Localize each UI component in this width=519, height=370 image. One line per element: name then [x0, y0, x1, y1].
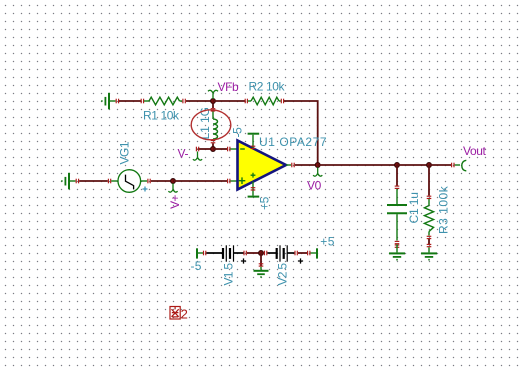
ground GND1 (top-left, facing left): [101, 93, 115, 110]
resistor R3: [424, 199, 433, 236]
resistor R2: [248, 97, 281, 105]
op-amp output lead: [286, 164, 291, 166]
pin ticks op-amp non-inverting input: [228, 179, 230, 184]
pin ticks R3 bottom: [427, 236, 432, 238]
output terminal Vout: [455, 160, 467, 171]
svg-text:2: 2: [181, 306, 188, 321]
svg-text:V0: V0: [307, 179, 322, 193]
op-amp minus input mark: [240, 148, 245, 150]
jumper terminal -5: [197, 248, 203, 258]
node at inverting junction: [211, 147, 216, 152]
pin ticks V- stub end: [196, 147, 198, 152]
highlight ellipse around L1: [191, 110, 231, 140]
pin ticks GND1: [116, 99, 118, 104]
svg-text:R2 10k: R2 10k: [249, 80, 286, 94]
ground GND4 under R3: [428, 239, 430, 244]
pin ticks L1 top: [211, 109, 216, 111]
svg-text:+5: +5: [320, 235, 335, 249]
wire GND2 to VG1: [79, 180, 108, 182]
wire R2 right corner down to output rail: [284, 101, 318, 165]
wire R1 to node VFb: [186, 100, 213, 102]
svg-text:V1 5: V1 5: [222, 263, 236, 286]
wire output to node V0: [295, 164, 318, 166]
inductor L1: [213, 112, 218, 141]
node V0 junction: [315, 163, 320, 168]
wire -5 terminal to V1: [206, 252, 223, 254]
op-amp bottom power pin with jumper: [248, 182, 260, 197]
wire C1 node to R3 node: [397, 164, 429, 166]
svg-text:VFb: VFb: [218, 80, 240, 94]
pin ticks VG1 right: [148, 179, 150, 184]
pin ticks op-amp V- supply: [251, 188, 256, 190]
pin ticks V2 right: [295, 251, 297, 256]
wire V0 to C1 node: [318, 164, 397, 166]
pin ticks GND2: [76, 179, 78, 184]
wire V1 to mid node: [247, 252, 261, 254]
mid supply junction: [259, 251, 264, 256]
node VFb marker (bird foot up): [208, 90, 218, 99]
VG1 plus polarity mark: [143, 187, 148, 192]
lead into op-amp plus pin: [230, 180, 237, 182]
node V+ junction: [171, 179, 176, 184]
pin ticks C1 top: [395, 186, 400, 188]
voltage generator VG1: [111, 170, 147, 193]
ground GND2 (left of VG1, facing left): [61, 173, 75, 190]
svg-text:Vout: Vout: [463, 144, 486, 158]
op-amp U1 triangle: [238, 141, 287, 190]
stem to mid ground: [260, 253, 262, 266]
wire mid node to V2: [261, 252, 264, 254]
wire R3 node to Vout terminal: [429, 164, 451, 166]
jumper terminal +5: [311, 248, 318, 258]
capacitor C1 stem from rail: [396, 165, 398, 186]
svg-text:R1 10k: R1 10k: [143, 109, 180, 123]
node V+ marker (bird foot down): [168, 184, 177, 193]
capacitor C1: [387, 189, 407, 241]
pin ticks -5 terminal: [204, 251, 206, 256]
node R3 junction: [427, 163, 432, 168]
node C1 junction: [395, 163, 400, 168]
pin ticks Vout stub: [452, 163, 454, 168]
svg-text:C1 1u: C1 1u: [407, 192, 421, 223]
wire VFb to R2: [213, 100, 245, 102]
battery V2: [267, 245, 294, 261]
svg-text:V+: V+: [168, 195, 182, 209]
pin ticks R1 right: [183, 99, 185, 104]
wire VG1 to node V+: [151, 180, 173, 182]
wire V2 to +5 terminal: [298, 252, 307, 254]
wire inverting node to op-amp: [213, 148, 227, 150]
node V- marker (bird foot down): [193, 152, 202, 161]
wire V- stub: [198, 148, 213, 150]
pin ticks R2 right: [281, 99, 283, 104]
wire GND1 to R1: [119, 100, 141, 102]
op-amp top power pin with jumper: [248, 134, 260, 149]
pin ticks op-amp V+ supply: [251, 146, 256, 148]
pin ticks V2 left: [265, 251, 267, 256]
pin ticks R1 left: [141, 99, 143, 104]
svg-text:+5: +5: [258, 196, 272, 210]
op-amp plus input mark: [239, 177, 246, 184]
svg-text:R3 100k: R3 100k: [436, 185, 450, 234]
svg-text:VG1: VG1: [117, 141, 131, 164]
node V0 marker (bird foot down): [313, 168, 322, 177]
pin ticks C1 bottom: [395, 241, 400, 243]
svg-text:U1 OPA277: U1 OPA277: [259, 135, 327, 149]
figure caption 图2: [170, 307, 180, 320]
battery V2 plus mark: [298, 258, 303, 263]
ground GND5 (mid supply): [254, 267, 269, 277]
pin ticks VG1 left: [108, 179, 110, 184]
pin ticks mid ground: [259, 264, 264, 266]
pin ticks op-amp output: [292, 163, 294, 168]
lead into op-amp minus pin: [230, 148, 237, 150]
pin ticks +5 terminal: [308, 251, 310, 256]
svg-text:V-: V-: [178, 147, 189, 161]
svg-text:-5: -5: [231, 127, 245, 138]
pin ticks V1 right: [244, 251, 246, 256]
op-amp positive supply mark: [251, 173, 256, 178]
ground GND3 under C1: [395, 245, 400, 247]
svg-text:-5: -5: [191, 259, 202, 273]
battery V1: [223, 245, 244, 261]
svg-text:V2 5: V2 5: [276, 263, 290, 286]
wire VFb down to L1: [212, 104, 214, 109]
node VFb junction: [211, 99, 216, 104]
wire V+ to op-amp: [173, 180, 227, 182]
pin ticks op-amp inverting input: [228, 147, 230, 152]
pin ticks L1 bottom: [211, 141, 216, 143]
resistor R1: [144, 97, 182, 105]
battery V1 plus mark: [241, 258, 246, 263]
pin ticks R2 left: [245, 99, 247, 104]
pin ticks R3 top: [427, 196, 432, 198]
wire L1 to inverting node: [212, 143, 214, 149]
resistor R3 stem from rail: [428, 165, 430, 196]
